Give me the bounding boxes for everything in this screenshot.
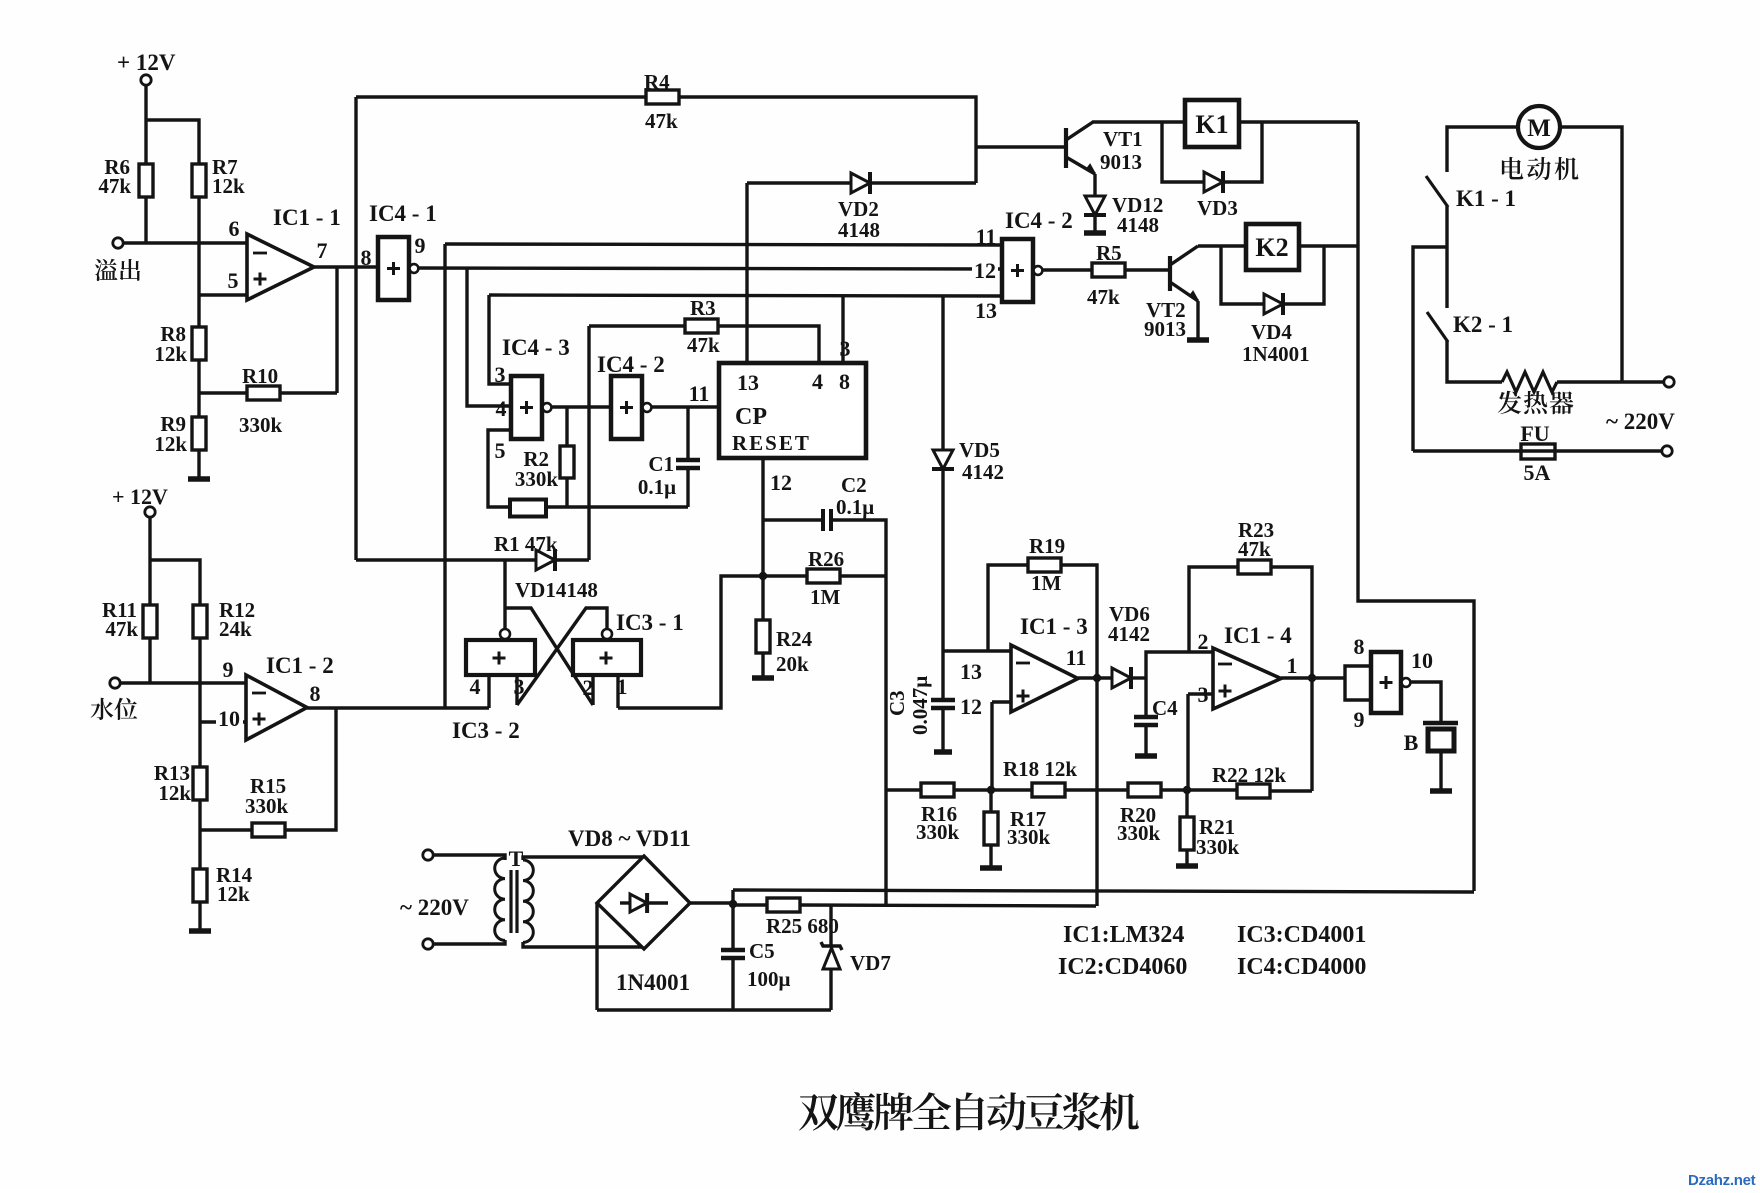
resistor R24 <box>756 620 770 653</box>
wire VD7 to 0V rail <box>829 969 832 1010</box>
svg-text:330k: 330k <box>1196 835 1240 859</box>
svg-text:1N4001: 1N4001 <box>1242 342 1310 366</box>
svg-text:FU: FU <box>1520 421 1549 446</box>
relay K2 <box>1246 224 1299 270</box>
wire IC1-3 output vertical down to supply rail <box>1095 680 1098 906</box>
wire VT2 collector to K2 <box>1198 244 1246 247</box>
svg-text:5: 5 <box>495 438 506 463</box>
wire output to VD6 <box>1078 676 1112 679</box>
ground (below R21) <box>1176 863 1198 869</box>
wire CP pin3 stub <box>841 296 844 363</box>
svg-text:12k: 12k <box>154 342 187 366</box>
wire R1 line left <box>356 558 536 561</box>
svg-text:4148: 4148 <box>1117 213 1159 237</box>
wire C3 to ground <box>941 708 944 751</box>
svg-text:R1 47k: R1 47k <box>494 532 558 556</box>
resistor R9 <box>192 417 206 450</box>
wire IC3-1 pin1 stub <box>616 675 619 708</box>
svg-text:330k: 330k <box>1007 825 1051 849</box>
wire node to R15 <box>200 828 252 831</box>
svg-text:330k: 330k <box>1117 821 1161 845</box>
resistor R7 <box>192 164 206 197</box>
wire R25 to zener rail <box>800 905 1096 906</box>
wire C2 branch <box>763 518 821 521</box>
junction R17 node <box>987 786 995 794</box>
wire bridge plus out <box>690 901 733 904</box>
wire heater to mains terminal <box>1557 380 1663 383</box>
junction IC1-4 output node <box>1308 674 1316 682</box>
wire IC4-1 output to IC4-2 pin12 <box>417 268 1002 269</box>
wire IC1-4 output to gate <box>1281 676 1345 679</box>
svg-text:7: 7 <box>317 238 328 263</box>
wire CP pin12 down <box>761 458 764 576</box>
resistor R11 <box>143 605 157 638</box>
svg-text:9: 9 <box>1354 707 1365 732</box>
transistor VT2 <box>1168 256 1172 291</box>
svg-text:K1: K1 <box>1195 110 1228 139</box>
op-amp IC1-2 <box>246 675 307 740</box>
wire IC4-2 output to CP pin11 <box>651 405 719 408</box>
svg-text:IC1 - 2: IC1 - 2 <box>266 653 334 678</box>
wire K1 to right bus <box>1239 120 1358 123</box>
capacitor C5 <box>721 948 745 953</box>
node ~220V primary terminal top <box>423 850 433 860</box>
junction bridge output node <box>729 900 737 908</box>
wire VD6 to C4 node <box>1133 676 1146 679</box>
svg-text:C1: C1 <box>648 452 674 476</box>
ground (below R24) <box>752 675 774 681</box>
svg-text:B: B <box>1404 730 1419 755</box>
resistor R14 <box>193 869 207 902</box>
svg-text:9013: 9013 <box>1100 150 1142 174</box>
node 水位 water-level input terminal <box>110 678 120 688</box>
wire R16 node rail <box>886 788 921 791</box>
svg-text:K2: K2 <box>1255 233 1288 262</box>
3-input gate IC4-3 <box>511 376 542 439</box>
svg-text:~ 220V: ~ 220V <box>1606 409 1675 434</box>
junction node pin12/R26/R24/C2 <box>759 572 767 580</box>
svg-text:9: 9 <box>223 657 234 682</box>
wire R3 left <box>589 324 685 327</box>
wire VD2 anode line from CP pin13 <box>747 181 851 184</box>
wire +12V to R6/R7 branch <box>144 85 147 164</box>
wire fuse line <box>1413 449 1661 452</box>
resistor R15 <box>252 823 285 837</box>
heater 发热器 (resistive element) <box>1502 372 1557 392</box>
svg-text:24k: 24k <box>219 617 252 641</box>
resistor R8 <box>192 327 206 360</box>
wire node to R25 <box>733 903 767 906</box>
ground (below R17) <box>980 865 1002 871</box>
wire gate output to buzzer <box>1410 682 1441 723</box>
wire junction to K2-1 <box>1445 247 1448 308</box>
wire input to IC1-2 pin9 <box>120 681 246 684</box>
wire cross-couple IC3-1 out to IC3-2 pin3 <box>517 608 607 705</box>
svg-text:12k: 12k <box>217 882 250 906</box>
svg-text:R5: R5 <box>1096 241 1122 265</box>
wire top R4 line right <box>679 97 976 183</box>
wire branch to R12 <box>150 560 200 605</box>
svg-text:2: 2 <box>1198 629 1209 654</box>
wire pin13 corner to IC4-3 pin3 <box>489 295 511 384</box>
svg-text:330k: 330k <box>245 794 289 818</box>
svg-text:IC3 - 2: IC3 - 2 <box>452 718 520 743</box>
resistor R26 <box>807 569 840 583</box>
diode VD4 <box>1264 294 1283 314</box>
capacitor C2 <box>821 509 825 531</box>
wire C1 tap <box>686 407 689 459</box>
wire IC4-2 pin13 line <box>489 295 1002 296</box>
svg-text:VD8 ~ VD11: VD8 ~ VD11 <box>568 826 691 851</box>
resistor R4 <box>646 90 679 104</box>
svg-text:K2 - 1: K2 - 1 <box>1453 312 1513 337</box>
wire node left to IC3-1 pin1 <box>618 576 763 708</box>
wire K2 to right bus <box>1299 244 1358 247</box>
svg-text:C5: C5 <box>749 939 775 963</box>
wire branch to R7 <box>146 120 199 164</box>
wire motor left to K1-1 <box>1447 127 1518 172</box>
wire +12V to R11 <box>148 517 151 605</box>
diode VD2 <box>851 173 870 193</box>
svg-text:12: 12 <box>960 694 982 719</box>
wire R16 to R18 <box>954 788 1032 791</box>
bridge rectifier VD8-VD11 <box>597 856 690 949</box>
svg-text:CP: CP <box>735 404 767 430</box>
node ~220V primary terminal bottom <box>423 939 433 949</box>
resistor R21 <box>1180 817 1194 850</box>
transformer T <box>495 858 505 940</box>
wire VD5 node to IC1-3 pin13 <box>943 649 1011 652</box>
wire K2-1 to heater <box>1447 341 1502 382</box>
wire node to R24 <box>761 576 764 620</box>
svg-text:IC1:LM324: IC1:LM324 <box>1063 922 1184 948</box>
svg-text:R3: R3 <box>690 296 716 320</box>
wire R21 to ground <box>1185 849 1188 865</box>
svg-text:C4: C4 <box>1152 696 1178 720</box>
wire overflow input to IC1-1 pin6 <box>123 241 247 244</box>
resistor R19 <box>1028 558 1061 572</box>
wire IC4-3 pin5 loop <box>488 430 511 507</box>
wire R2 vertical tap <box>565 407 568 446</box>
svg-text:~ 220V: ~ 220V <box>400 895 469 920</box>
wire R13 to R15 node <box>198 800 201 869</box>
node 溢出 overflow input terminal <box>113 238 123 248</box>
resistor R16 <box>921 783 954 797</box>
svg-text:Dzahz.net: Dzahz.net <box>1688 1172 1756 1188</box>
wire IC4-3 output to IC4-2 input <box>552 405 611 408</box>
wire VD4 loop left <box>1221 246 1264 304</box>
wire bottom loop to C1 <box>546 505 688 508</box>
wire secondary top <box>523 857 644 860</box>
capacitor C3 <box>931 698 955 703</box>
wire VD2 cathode to R4 node <box>872 181 976 184</box>
svg-text:VD3: VD3 <box>1197 196 1238 220</box>
svg-text:8: 8 <box>361 245 372 270</box>
zener diode VD7 <box>829 905 832 946</box>
node +12V terminal (top left) <box>141 75 151 85</box>
svg-text:IC1 - 1: IC1 - 1 <box>273 205 341 230</box>
svg-text:3: 3 <box>495 362 506 387</box>
diode VD5 <box>933 450 953 469</box>
svg-text:12k: 12k <box>154 432 187 456</box>
wire pin11 vertical to IC1-2 output <box>443 244 446 708</box>
wire IC1-2 output line <box>307 706 489 709</box>
ground (below buzzer) <box>1430 788 1452 794</box>
wire R2 to bottom loop <box>565 478 568 507</box>
NOR gate IC3-2 <box>466 640 535 675</box>
diode VD3 <box>1204 172 1223 192</box>
svg-text:+ 12V: + 12V <box>117 50 176 75</box>
resistor R12 <box>193 605 207 638</box>
resistor R3 <box>685 319 718 333</box>
wire right bus vertical <box>1358 122 1474 891</box>
IC2 CD4060 counter block (CP/RESET) <box>719 363 866 458</box>
wire pin12 to plus input <box>992 700 1011 703</box>
wire R12 chain down <box>198 637 201 767</box>
wire C4 node up to pin2 wire <box>1146 652 1213 678</box>
svg-text:9013: 9013 <box>1144 317 1186 341</box>
svg-text:47k: 47k <box>687 333 720 357</box>
svg-text:4142: 4142 <box>962 460 1004 484</box>
wire R19 to output vertical <box>1061 565 1097 676</box>
svg-text:4: 4 <box>496 396 507 421</box>
NOR gate IC3-1 <box>573 640 641 675</box>
svg-text:12: 12 <box>974 258 996 283</box>
wire R19 feedback vertical <box>988 565 1028 651</box>
svg-text:8: 8 <box>1354 634 1365 659</box>
wire R20 to R22 <box>1161 788 1237 791</box>
wire VD5 to C3 <box>941 469 944 700</box>
svg-text:K1 - 1: K1 - 1 <box>1456 186 1516 211</box>
svg-text:VD4: VD4 <box>1251 320 1292 344</box>
node mains terminal bottom <box>1662 446 1672 456</box>
wire C5 branch <box>731 904 734 949</box>
wire VT2 emitter to ground <box>1196 301 1199 339</box>
wire VT1 base <box>976 145 1066 148</box>
junction R21 node <box>1183 786 1191 794</box>
wire C4 node down <box>1144 678 1147 716</box>
svg-text:C3: C3 <box>885 690 909 716</box>
wire R21 stub <box>1185 790 1188 817</box>
wire K1-1 to junction <box>1445 206 1448 247</box>
svg-text:R25 680: R25 680 <box>766 914 839 938</box>
switch K2-1 <box>1427 312 1448 342</box>
svg-text:4148: 4148 <box>838 218 880 242</box>
resistor R23 <box>1238 560 1271 574</box>
svg-text:47k: 47k <box>98 174 131 198</box>
svg-text:5A: 5A <box>1524 460 1551 485</box>
ground (below R14) <box>189 928 211 934</box>
svg-text:47k: 47k <box>1087 285 1120 309</box>
wire CP pin13 vertical <box>745 183 748 363</box>
wire R6 bottom to input wire <box>144 196 147 243</box>
svg-text:47k: 47k <box>105 617 138 641</box>
wire 0V rail <box>597 1008 831 1011</box>
diode VD6 <box>1112 668 1131 688</box>
svg-text:RESET: RESET <box>732 431 811 455</box>
wire VD3 loop left <box>1162 122 1204 182</box>
op-amp IC1-4 <box>1213 648 1281 709</box>
svg-text:6: 6 <box>229 216 240 241</box>
wire R23 to output vertical <box>1271 567 1312 676</box>
wire IC4-1 out down to IC4-3 pin4 <box>467 268 511 406</box>
wire IC1-1 output to IC4-1 pin8 <box>314 265 378 268</box>
resistor R20 <box>1128 783 1161 797</box>
svg-text:IC4:CD4000: IC4:CD4000 <box>1237 954 1366 980</box>
svg-text:R10: R10 <box>242 364 278 388</box>
resistor R5 <box>1092 263 1125 277</box>
wire primary bottom <box>433 940 505 944</box>
diode VD12 <box>1085 196 1105 215</box>
wire IC3-2 pin4 stub <box>487 675 490 708</box>
svg-text:R18 12k: R18 12k <box>1003 757 1077 781</box>
wire R5 to VT2 base <box>1125 268 1170 271</box>
resistor R2 <box>560 446 574 478</box>
wire R10 to output <box>280 391 337 394</box>
svg-text:VD5: VD5 <box>959 438 1000 462</box>
buzzer B <box>1423 721 1458 726</box>
wire R8 to R9 <box>197 360 200 417</box>
relay K1 <box>1185 100 1239 147</box>
svg-text:IC4 - 1: IC4 - 1 <box>369 201 437 226</box>
svg-text:12k: 12k <box>158 781 191 805</box>
svg-text:13: 13 <box>960 659 982 684</box>
wire R22 right <box>1270 789 1312 792</box>
capacitor C1 <box>676 458 700 463</box>
svg-text:M: M <box>1527 115 1551 142</box>
wire VD4 loop right <box>1285 246 1324 304</box>
svg-text:IC3 - 1: IC3 - 1 <box>616 610 684 635</box>
svg-text:4: 4 <box>470 674 481 699</box>
svg-text:R26: R26 <box>808 547 844 571</box>
resistor R25 <box>767 898 800 912</box>
wire +V rail (to relays) <box>733 890 1474 892</box>
wire node up to +V rail <box>731 890 734 904</box>
svg-text:4142: 4142 <box>1108 622 1150 646</box>
wire R4 left vertical (from IC1-1 area to VD1 line) <box>354 97 357 560</box>
svg-text:12k: 12k <box>212 174 245 198</box>
wire motor right side <box>1560 127 1622 382</box>
svg-text:1M: 1M <box>810 585 841 609</box>
svg-text:IC4 - 2: IC4 - 2 <box>597 352 665 377</box>
svg-text:R24: R24 <box>776 627 813 651</box>
wire R10 feedback vertical <box>335 267 338 393</box>
svg-text:IC4 - 3: IC4 - 3 <box>502 335 570 360</box>
wire plus input down to R16 node <box>990 702 993 790</box>
wire R15 to output <box>285 708 336 830</box>
svg-text:1: 1 <box>617 674 628 699</box>
resistor R10 <box>247 386 280 400</box>
ground (below C3) <box>934 749 952 755</box>
svg-text:VT1: VT1 <box>1103 127 1143 151</box>
wire R9 to ground <box>197 450 200 478</box>
wire R23 feedback vertical <box>1189 567 1238 652</box>
wire R8/R9 node to R10 <box>199 391 247 394</box>
wire cross-couple IC3-2 out to IC3-1 pin2 <box>505 608 593 705</box>
wire pin5 to IC1-1 <box>199 293 247 296</box>
svg-text:11: 11 <box>976 224 997 249</box>
svg-text:100μ: 100μ <box>747 967 791 991</box>
ground (below VD12) <box>1084 230 1106 236</box>
wire C5 to 0V rail <box>731 958 734 1010</box>
wire R3 right to CP pin4 <box>718 326 819 363</box>
resistor R22 <box>1237 784 1270 798</box>
inverter IC4-1 <box>378 237 409 300</box>
3-input gate IC4-2 (right) <box>1002 239 1033 302</box>
svg-text:8: 8 <box>839 369 850 394</box>
op-amp IC1-1 <box>247 234 314 300</box>
wire IC4-2 pin11 <box>445 244 1002 245</box>
svg-text:IC1 - 3: IC1 - 3 <box>1020 614 1088 639</box>
wire node to R26 <box>763 574 807 577</box>
svg-text:10: 10 <box>218 706 240 731</box>
svg-text:13: 13 <box>975 298 997 323</box>
wire VT1 collector to K1 <box>1092 120 1185 123</box>
wire VD3 loop right <box>1225 122 1262 182</box>
node mains terminal top <box>1664 377 1674 387</box>
transistor VT1 <box>1064 128 1068 168</box>
wire IC3-2 output tap up <box>503 560 506 629</box>
wire R7 to R8 (through pin5 node) <box>197 196 200 327</box>
svg-text:10: 10 <box>1411 648 1433 673</box>
svg-text:IC2:CD4060: IC2:CD4060 <box>1058 954 1187 980</box>
svg-text:3: 3 <box>840 336 851 361</box>
svg-text:+ 12V: + 12V <box>112 484 168 509</box>
svg-text:20k: 20k <box>776 652 809 676</box>
wire output vertical to R22 <box>1310 680 1313 791</box>
svg-text:12: 12 <box>770 470 792 495</box>
wire top R4 line left <box>356 95 646 98</box>
svg-text:4: 4 <box>812 369 823 394</box>
svg-text:IC1 - 4: IC1 - 4 <box>1224 623 1292 648</box>
junction IC1-3 output node <box>1093 674 1101 682</box>
wire R18 to R20 <box>1065 788 1128 791</box>
svg-text:9: 9 <box>415 233 426 258</box>
wire VT1 emitter to VD12 <box>1093 174 1096 196</box>
op-amp IC1-3 <box>1011 645 1078 712</box>
svg-text:330k: 330k <box>916 820 960 844</box>
svg-text:IC4 - 2: IC4 - 2 <box>1005 208 1073 233</box>
ground (below R9) <box>188 476 210 482</box>
svg-text:R19: R19 <box>1029 534 1065 558</box>
wire primary top <box>433 855 505 860</box>
wire VD1 cathode to R3 vertical <box>557 558 589 561</box>
svg-text:C2: C2 <box>841 473 867 497</box>
resistor R13 <box>193 767 207 800</box>
wire pin3 vertical <box>1186 694 1189 790</box>
wire pin10 to IC1-2 <box>200 720 246 723</box>
wire C2 right to vertical <box>833 520 886 905</box>
svg-text:11: 11 <box>1066 645 1087 670</box>
inverter IC4-2 (middle) <box>611 376 642 439</box>
wire IC3-2 pin3 stub <box>515 675 518 705</box>
wire R17 to ground <box>989 844 992 867</box>
svg-text:0.1μ: 0.1μ <box>638 475 676 499</box>
wire C1 bottom <box>686 468 689 507</box>
wire bridge minus down <box>595 903 598 1010</box>
svg-text:47k: 47k <box>645 109 678 133</box>
svg-text:R4: R4 <box>644 70 670 94</box>
wire pin3 to R20 node <box>1188 692 1213 695</box>
node +12V terminal (left middle) <box>145 507 155 517</box>
switch K1-1 <box>1426 176 1448 207</box>
wire C4 to ground <box>1144 725 1147 755</box>
svg-text:VD7: VD7 <box>850 951 891 975</box>
svg-text:VD14148: VD14148 <box>515 578 598 602</box>
svg-text:1: 1 <box>1287 653 1298 678</box>
svg-text:330k: 330k <box>239 413 283 437</box>
wire IC3-1 pin2 stub <box>591 675 594 705</box>
